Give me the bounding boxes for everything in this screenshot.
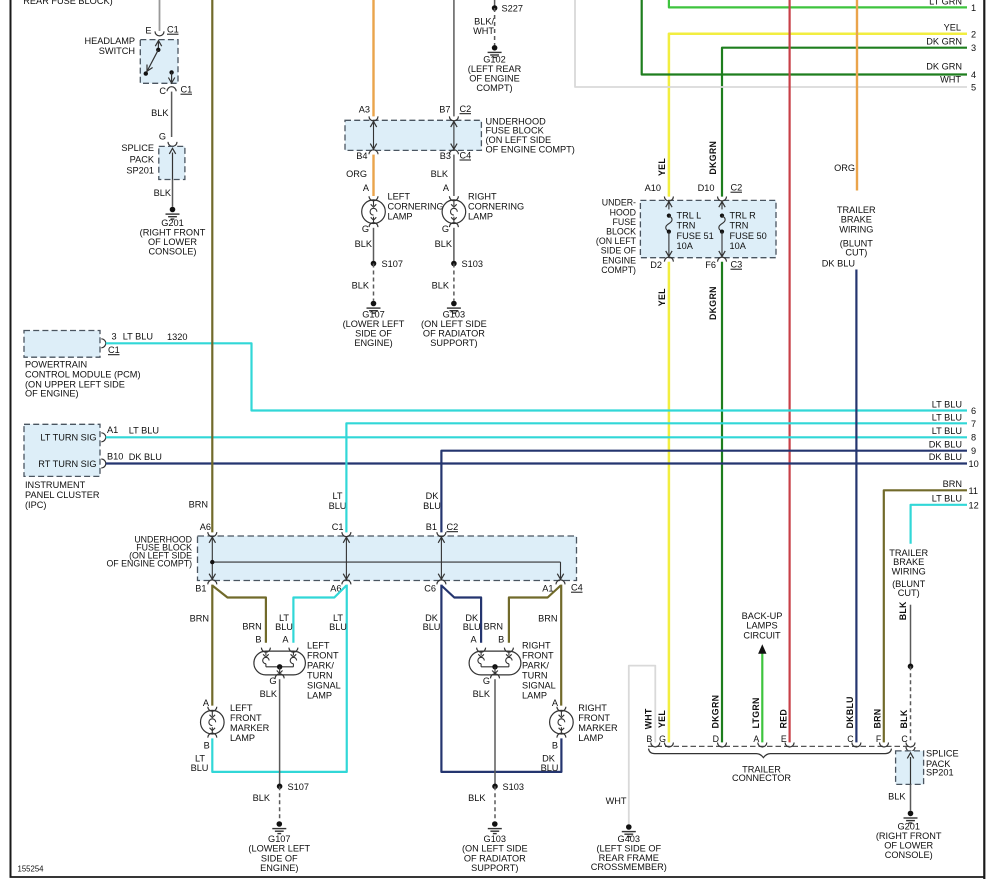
- svg-text:A10: A10: [645, 183, 661, 193]
- wire BRN B1 to left front marker lamp: [211, 585, 213, 706]
- wire BRN from top to fuse block A6: [211, 0, 213, 532]
- svg-text:BRN: BRN: [189, 500, 208, 510]
- fuse block internal C1-A6: [345, 536, 347, 581]
- svg-text:FRONT: FRONT: [307, 651, 339, 661]
- svg-text:PARK/: PARK/: [522, 661, 549, 671]
- svg-text:G: G: [659, 734, 666, 744]
- svg-text:LEFT: LEFT: [307, 641, 330, 651]
- wire WHT to trailer connector B and ground G403: [629, 666, 656, 825]
- svg-text:POWERTRAIN: POWERTRAIN: [25, 360, 87, 370]
- wire LT GRN line 1: [669, 0, 967, 7]
- svg-text:SIDE OF: SIDE OF: [355, 328, 392, 338]
- svg-text:(ON LEFT SIDE: (ON LEFT SIDE: [421, 319, 487, 329]
- svg-text:S103: S103: [462, 259, 483, 269]
- svg-text:WHT: WHT: [606, 796, 627, 806]
- wire WHT feed to headlamp switch: [159, 0, 161, 31]
- wire BLK dashed S107 to G107: [279, 786, 281, 821]
- svg-text:TURN: TURN: [307, 671, 333, 681]
- svg-text:SWITCH: SWITCH: [99, 46, 135, 56]
- svg-text:BLK: BLK: [899, 709, 909, 728]
- svg-text:REAR FUSE BLOCK): REAR FUSE BLOCK): [23, 0, 112, 6]
- svg-text:CUT): CUT): [898, 588, 920, 598]
- svg-text:(ON LEFT: (ON LEFT: [596, 236, 637, 246]
- svg-text:BLK: BLK: [473, 689, 491, 699]
- svg-text:BLK: BLK: [151, 108, 169, 118]
- svg-text:(RIGHT FRONT: (RIGHT FRONT: [140, 228, 206, 238]
- svg-text:LT BLU: LT BLU: [932, 426, 962, 436]
- svg-text:LAMP: LAMP: [230, 733, 255, 743]
- svg-text:ENGINE): ENGINE): [354, 338, 392, 348]
- svg-text:SP201: SP201: [926, 768, 954, 778]
- svg-text:BLU: BLU: [541, 763, 559, 773]
- svg-text:PACK: PACK: [130, 154, 155, 164]
- svg-text:CORNERING: CORNERING: [388, 202, 444, 212]
- svg-text:G107: G107: [268, 834, 290, 844]
- svg-text:OF ENGINE: OF ENGINE: [469, 74, 520, 84]
- wire LT BLU A6 down to marker lamp B: [212, 585, 346, 772]
- svg-text:DKBLU: DKBLU: [845, 696, 855, 728]
- svg-text:DK BLU: DK BLU: [929, 440, 962, 450]
- wire ORG from top to fuse block A3: [372, 0, 374, 116]
- svg-text:D: D: [713, 734, 719, 744]
- svg-text:BLK: BLK: [253, 793, 271, 803]
- wire BLK dashed to ground G103: [453, 264, 455, 301]
- svg-text:(ON LEFT SIDE: (ON LEFT SIDE: [462, 844, 528, 854]
- svg-text:BLU: BLU: [423, 501, 441, 511]
- svg-text:TRL L: TRL L: [677, 211, 702, 221]
- fuse block internal path B7-B3: [453, 120, 455, 150]
- svg-text:FRONT: FRONT: [230, 713, 262, 723]
- wire BLK right cornering lamp to S103: [453, 228, 455, 264]
- svg-text:YEL: YEL: [657, 158, 667, 176]
- svg-text:C2: C2: [460, 104, 472, 114]
- svg-text:B3: B3: [440, 151, 451, 161]
- svg-text:G: G: [159, 132, 166, 142]
- svg-text:SPLICE: SPLICE: [121, 143, 154, 153]
- svg-text:4: 4: [971, 70, 976, 80]
- ground G102 left rear of engine compt: [492, 45, 498, 51]
- fuse block internal path A3-B4: [373, 120, 375, 150]
- svg-text:(LEFT REAR: (LEFT REAR: [468, 64, 522, 74]
- ground G403 left side of rear frame crossmember: [626, 824, 632, 830]
- svg-text:OF ENGINE COMPT): OF ENGINE COMPT): [106, 559, 192, 569]
- wire BLK left cornering lamp to S107: [373, 228, 375, 264]
- svg-text:DK BLU: DK BLU: [822, 259, 855, 269]
- underhood fuse block (cornering lamps): [345, 120, 481, 150]
- wire ORG trailer brake blunt cut: [856, 0, 858, 191]
- svg-text:A: A: [363, 183, 370, 193]
- svg-text:FUSE 51: FUSE 51: [677, 231, 714, 241]
- svg-text:SUPPORT): SUPPORT): [430, 338, 477, 348]
- pin 3 of PCM connector C1: [101, 339, 106, 348]
- instrument panel cluster IPC: [24, 424, 100, 476]
- wire LT BLU line 12 trailer brake blunt cut: [911, 505, 967, 544]
- svg-text:TURN: TURN: [522, 671, 548, 681]
- svg-text:A1: A1: [542, 584, 553, 594]
- svg-text:PANEL CLUSTER: PANEL CLUSTER: [25, 490, 100, 500]
- pin A3: [369, 116, 378, 121]
- svg-text:ORG: ORG: [346, 169, 367, 179]
- wire BLK turn lamp G to S103: [494, 679, 496, 786]
- wire BLK SP201 to ground G201: [910, 784, 912, 810]
- svg-text:BLK: BLK: [432, 281, 450, 291]
- svg-text:BRN: BRN: [538, 614, 557, 624]
- svg-text:5: 5: [971, 83, 976, 93]
- svg-text:B1: B1: [195, 584, 206, 594]
- wire LT BLU 1320 from PCM to line 6: [106, 343, 967, 410]
- svg-text:S103: S103: [503, 782, 524, 792]
- wire ORG B4 to left cornering lamp: [372, 155, 374, 196]
- pin B7: [449, 116, 458, 121]
- ground G201 right front of lower console (trailer): [908, 811, 914, 817]
- ground G103 on left side of radiator support (lamp group): [492, 821, 498, 827]
- svg-text:LT BLU: LT BLU: [932, 400, 962, 410]
- svg-text:BLK: BLK: [898, 601, 908, 620]
- wire LT BLU LT turn signal line 8: [106, 436, 967, 438]
- svg-text:A: A: [470, 634, 477, 644]
- svg-text:A: A: [282, 634, 289, 644]
- svg-text:RIGHT: RIGHT: [578, 703, 607, 713]
- svg-text:8: 8: [971, 433, 976, 443]
- svg-text:OF LOWER: OF LOWER: [884, 841, 933, 851]
- svg-text:UNDER-: UNDER-: [602, 198, 636, 208]
- svg-text:BRAKE: BRAKE: [841, 215, 872, 225]
- wire DK BLU line 9 to fuse block C2: [441, 451, 967, 533]
- svg-text:(RIGHT FRONT: (RIGHT FRONT: [876, 831, 942, 841]
- svg-text:C1: C1: [167, 25, 179, 35]
- svg-text:COMPT): COMPT): [476, 83, 512, 93]
- svg-text:YEL: YEL: [944, 22, 961, 32]
- svg-text:G103: G103: [484, 834, 506, 844]
- trailer connector: [648, 745, 913, 747]
- svg-text:BLK: BLK: [888, 792, 906, 802]
- wire BRN branch to turn lamp B pin: [212, 586, 266, 643]
- svg-text:DK: DK: [426, 491, 440, 501]
- svg-text:SIGNAL: SIGNAL: [522, 681, 556, 691]
- svg-text:C2: C2: [447, 522, 459, 532]
- node E pin of headlamp switch: [155, 31, 164, 36]
- node C pin of splice pack SP201: [906, 747, 915, 752]
- svg-text:C4: C4: [460, 150, 472, 160]
- svg-text:G102: G102: [483, 55, 505, 65]
- underhood fuse block (park/turn lamps): [198, 536, 577, 581]
- svg-text:TRL R: TRL R: [730, 211, 757, 221]
- svg-text:BLK: BLK: [355, 239, 373, 249]
- node C pin of headlamp switch: [167, 87, 176, 92]
- svg-text:155254: 155254: [18, 865, 45, 874]
- svg-text:ORG: ORG: [834, 163, 855, 173]
- svg-text:C: C: [847, 734, 854, 744]
- svg-text:RT TURN SIG: RT TURN SIG: [38, 459, 96, 469]
- wire DK BLU C6 to right marker lamp B: [441, 585, 561, 772]
- svg-text:LAMP: LAMP: [468, 212, 493, 222]
- svg-text:10A: 10A: [730, 241, 747, 251]
- svg-text:F6: F6: [705, 260, 716, 270]
- trailer connector brace: [649, 749, 892, 758]
- svg-text:SIDE OF: SIDE OF: [601, 246, 637, 256]
- svg-text:1320: 1320: [167, 332, 187, 342]
- svg-text:B7: B7: [439, 105, 450, 115]
- svg-text:C1: C1: [332, 522, 344, 532]
- svg-text:LT BLU: LT BLU: [932, 494, 962, 504]
- svg-text:G: G: [483, 676, 490, 686]
- svg-text:LT TURN SIG: LT TURN SIG: [40, 432, 96, 442]
- svg-text:CIRCUIT: CIRCUIT: [743, 630, 781, 640]
- svg-text:LT: LT: [332, 491, 342, 501]
- svg-text:COMPT): COMPT): [601, 265, 636, 275]
- svg-text:S107: S107: [382, 259, 403, 269]
- svg-text:LEFT: LEFT: [388, 192, 411, 202]
- svg-text:BLK: BLK: [260, 689, 278, 699]
- wire YEL line 2 to fuse A10: [669, 34, 967, 197]
- svg-text:BRN: BRN: [943, 479, 962, 489]
- svg-text:B: B: [552, 740, 558, 750]
- svg-text:BRN: BRN: [242, 622, 261, 632]
- svg-text:10: 10: [969, 459, 979, 469]
- svg-text:BLK: BLK: [154, 188, 172, 198]
- svg-text:DKGRN: DKGRN: [708, 141, 718, 175]
- fuse block internal B1-C6: [440, 536, 442, 581]
- pin A1 of IPC: [101, 433, 106, 442]
- wire LT BLU line 7 to fuse block C1: [346, 423, 967, 532]
- wire BLK splice pack to ground G201: [172, 180, 174, 207]
- svg-text:LT: LT: [195, 754, 205, 764]
- svg-text:C: C: [159, 86, 166, 96]
- svg-text:CROSSMEMBER): CROSSMEMBER): [591, 862, 667, 872]
- svg-text:(IPC): (IPC): [25, 500, 46, 510]
- svg-text:E: E: [145, 26, 151, 36]
- svg-text:BLK: BLK: [352, 281, 370, 291]
- svg-text:B: B: [204, 740, 210, 750]
- svg-text:BLK: BLK: [431, 169, 449, 179]
- svg-text:B: B: [646, 734, 652, 744]
- svg-text:YEL: YEL: [657, 710, 667, 728]
- svg-text:ENGINE: ENGINE: [602, 255, 636, 265]
- fuse block internal A6-B1: [211, 536, 213, 581]
- svg-text:OF ENGINE COMPT): OF ENGINE COMPT): [486, 145, 575, 155]
- svg-text:BRN: BRN: [190, 614, 209, 624]
- wire WHT line 5: [575, 0, 967, 87]
- svg-text:C1: C1: [181, 85, 193, 95]
- svg-text:WIRING: WIRING: [839, 224, 873, 234]
- svg-text:S107: S107: [288, 782, 309, 792]
- svg-text:WHT: WHT: [940, 75, 961, 85]
- wire BRN A1 to turn lamp B pin: [509, 586, 561, 643]
- svg-text:TRAILER: TRAILER: [837, 205, 876, 215]
- svg-text:F: F: [876, 734, 882, 744]
- splice junction on BLK wire: [908, 664, 914, 670]
- svg-text:CONNECTOR: CONNECTOR: [732, 773, 791, 783]
- svg-text:G: G: [362, 224, 369, 234]
- svg-text:CONSOLE): CONSOLE): [885, 850, 933, 860]
- wire DK GRN C3 to trailer connector D: [721, 262, 723, 743]
- pin A1 bottom: [556, 580, 565, 585]
- svg-text:OF ENGINE): OF ENGINE): [25, 389, 79, 399]
- svg-text:B4: B4: [356, 151, 367, 161]
- svg-text:DKGRN: DKGRN: [708, 286, 718, 320]
- pin C1 top: [342, 532, 351, 537]
- svg-text:DK BLU: DK BLU: [129, 452, 162, 462]
- svg-text:SP201: SP201: [126, 166, 154, 176]
- wire LT GRN back-up lamps to connector A: [761, 654, 763, 743]
- svg-text:3: 3: [111, 332, 116, 342]
- wire DK BLU RT turn signal line 10: [106, 462, 967, 464]
- svg-text:B10: B10: [107, 452, 123, 462]
- svg-text:BLU: BLU: [329, 501, 347, 511]
- svg-text:CUT): CUT): [845, 248, 867, 258]
- splice pack SP201: [159, 146, 185, 179]
- svg-text:C6: C6: [424, 584, 436, 594]
- svg-text:RIGHT: RIGHT: [522, 641, 551, 651]
- pin D2: [664, 257, 673, 262]
- svg-text:YEL: YEL: [657, 288, 667, 306]
- wire BLK B3 to right cornering lamp: [453, 155, 455, 196]
- svg-text:MARKER: MARKER: [230, 723, 270, 733]
- svg-text:G: G: [269, 676, 276, 686]
- splice S227: [494, 0, 496, 8]
- svg-text:BLK: BLK: [435, 239, 453, 249]
- svg-text:B1: B1: [426, 522, 437, 532]
- svg-text:WHT: WHT: [473, 26, 494, 36]
- svg-text:PARK/: PARK/: [307, 661, 334, 671]
- svg-text:A: A: [203, 698, 210, 708]
- svg-text:BLU: BLU: [329, 622, 347, 632]
- svg-text:DKGRN: DKGRN: [711, 695, 721, 729]
- svg-text:7: 7: [971, 419, 976, 429]
- svg-text:B: B: [498, 634, 504, 644]
- svg-text:BLU: BLU: [423, 622, 441, 632]
- powertrain control module PCM: [24, 331, 100, 358]
- wire BLK dashed to ground G107: [373, 264, 375, 301]
- svg-text:INSTRUMENT: INSTRUMENT: [25, 480, 86, 490]
- svg-text:OF LOWER: OF LOWER: [148, 237, 197, 247]
- headlamp switch SW1: [140, 40, 178, 84]
- svg-text:G: G: [442, 224, 449, 234]
- svg-text:G103: G103: [443, 309, 465, 319]
- svg-text:LAMP: LAMP: [578, 733, 603, 743]
- svg-text:HEADLAMP: HEADLAMP: [84, 36, 135, 46]
- svg-text:DK BLU: DK BLU: [929, 452, 962, 462]
- splice S103 (lamp group): [492, 784, 498, 790]
- ground G103 on left side of radiator support: [451, 301, 457, 307]
- splice S103: [451, 261, 457, 267]
- svg-text:LAMPS: LAMPS: [746, 621, 777, 631]
- svg-text:CORNERING: CORNERING: [468, 202, 524, 212]
- wire DK GRN line 4: [642, 0, 967, 75]
- svg-text:G201: G201: [897, 822, 919, 832]
- svg-text:A: A: [552, 698, 559, 708]
- svg-text:SIDE OF: SIDE OF: [261, 853, 298, 863]
- ground G107 lower left side of engine (lamp group): [277, 821, 283, 827]
- wire YEL D2 to trailer connector G: [668, 262, 671, 743]
- svg-text:6: 6: [971, 406, 976, 416]
- wire DK BLU branch to turn lamp A pin: [441, 586, 481, 643]
- svg-text:A: A: [443, 183, 450, 193]
- svg-text:BLOCK: BLOCK: [606, 227, 636, 237]
- wire BRN line 11 to trailer connector F: [884, 490, 967, 742]
- svg-text:C4: C4: [571, 583, 583, 593]
- wire BLK dashed to trailer connector C: [910, 666, 912, 742]
- svg-text:SPLICE: SPLICE: [926, 749, 959, 759]
- ground G107 lower left side of engine: [371, 301, 377, 307]
- svg-text:9: 9: [971, 446, 976, 456]
- fuse TRL L TRN FUSE 51 10A: [668, 200, 670, 209]
- left cornering lamp: [362, 200, 386, 224]
- svg-text:CONTROL MODULE (PCM): CONTROL MODULE (PCM): [25, 370, 141, 380]
- svg-text:LAMP: LAMP: [522, 691, 547, 701]
- svg-text:E: E: [781, 734, 787, 744]
- svg-text:B: B: [255, 634, 261, 644]
- wire BLK headlamp switch to splice pack: [171, 92, 173, 137]
- svg-text:A1: A1: [107, 425, 118, 435]
- svg-text:BRN: BRN: [873, 709, 883, 729]
- svg-text:MARKER: MARKER: [578, 723, 618, 733]
- wire BLK dashed S103 to G103: [494, 786, 496, 821]
- svg-text:OF RADIATOR: OF RADIATOR: [423, 328, 485, 338]
- pin F6: [718, 257, 727, 262]
- svg-text:A: A: [753, 734, 759, 744]
- svg-text:LAMP: LAMP: [388, 212, 413, 222]
- wire RED from top to trailer connector E: [788, 0, 790, 742]
- pin B10 of IPC: [101, 459, 106, 468]
- svg-text:BLU: BLU: [463, 622, 481, 632]
- svg-text:TRN: TRN: [677, 221, 696, 231]
- svg-text:A3: A3: [359, 105, 370, 115]
- svg-text:LT BLU: LT BLU: [129, 426, 159, 436]
- underhood fuse block (trailer fuses): [640, 200, 776, 257]
- svg-text:LTGRN: LTGRN: [751, 697, 761, 728]
- ground G201 right front of lower console: [170, 207, 176, 213]
- svg-text:RIGHT: RIGHT: [468, 192, 497, 202]
- svg-text:FRONT: FRONT: [522, 651, 554, 661]
- svg-text:3: 3: [971, 43, 976, 53]
- svg-text:C1: C1: [108, 345, 120, 355]
- svg-text:FUSE: FUSE: [613, 217, 637, 227]
- svg-text:OF RADIATOR: OF RADIATOR: [464, 853, 526, 863]
- svg-text:WIRING: WIRING: [892, 566, 926, 576]
- svg-text:C: C: [901, 734, 908, 744]
- svg-text:(LOWER LEFT: (LOWER LEFT: [248, 844, 310, 854]
- wire BLK/WHT dashed to ground G102: [494, 8, 496, 45]
- fuse TRL R TRN FUSE 50 10A: [721, 200, 723, 209]
- pin B4: [369, 150, 378, 155]
- svg-text:1: 1: [971, 3, 976, 13]
- pin B3: [449, 150, 458, 155]
- svg-text:10A: 10A: [677, 241, 694, 251]
- svg-text:BRN: BRN: [484, 622, 503, 632]
- svg-text:HOOD: HOOD: [610, 207, 636, 217]
- svg-text:11: 11: [969, 486, 979, 496]
- svg-text:S227: S227: [502, 4, 523, 14]
- wire BLK turn lamp G to S107: [279, 679, 281, 786]
- svg-text:FRONT: FRONT: [578, 713, 610, 723]
- splice pack SP201 (console): [896, 751, 924, 785]
- pin C6 bottom: [437, 580, 446, 585]
- svg-text:G107: G107: [362, 309, 384, 319]
- svg-text:C2: C2: [731, 183, 743, 193]
- pin D10: [718, 197, 727, 202]
- svg-text:FUSE 50: FUSE 50: [730, 231, 767, 241]
- svg-text:2: 2: [971, 29, 976, 39]
- svg-text:12: 12: [969, 501, 979, 511]
- svg-text:LT GRN: LT GRN: [929, 0, 962, 7]
- pin A10: [664, 197, 673, 202]
- svg-text:SUPPORT): SUPPORT): [471, 863, 518, 873]
- svg-text:C3: C3: [731, 260, 743, 270]
- fuse block internal bus to A1: [212, 561, 560, 563]
- wire BRN A1 down to marker lamp A: [560, 585, 562, 706]
- wire DK GRN line 3 to fuse D10: [722, 48, 967, 197]
